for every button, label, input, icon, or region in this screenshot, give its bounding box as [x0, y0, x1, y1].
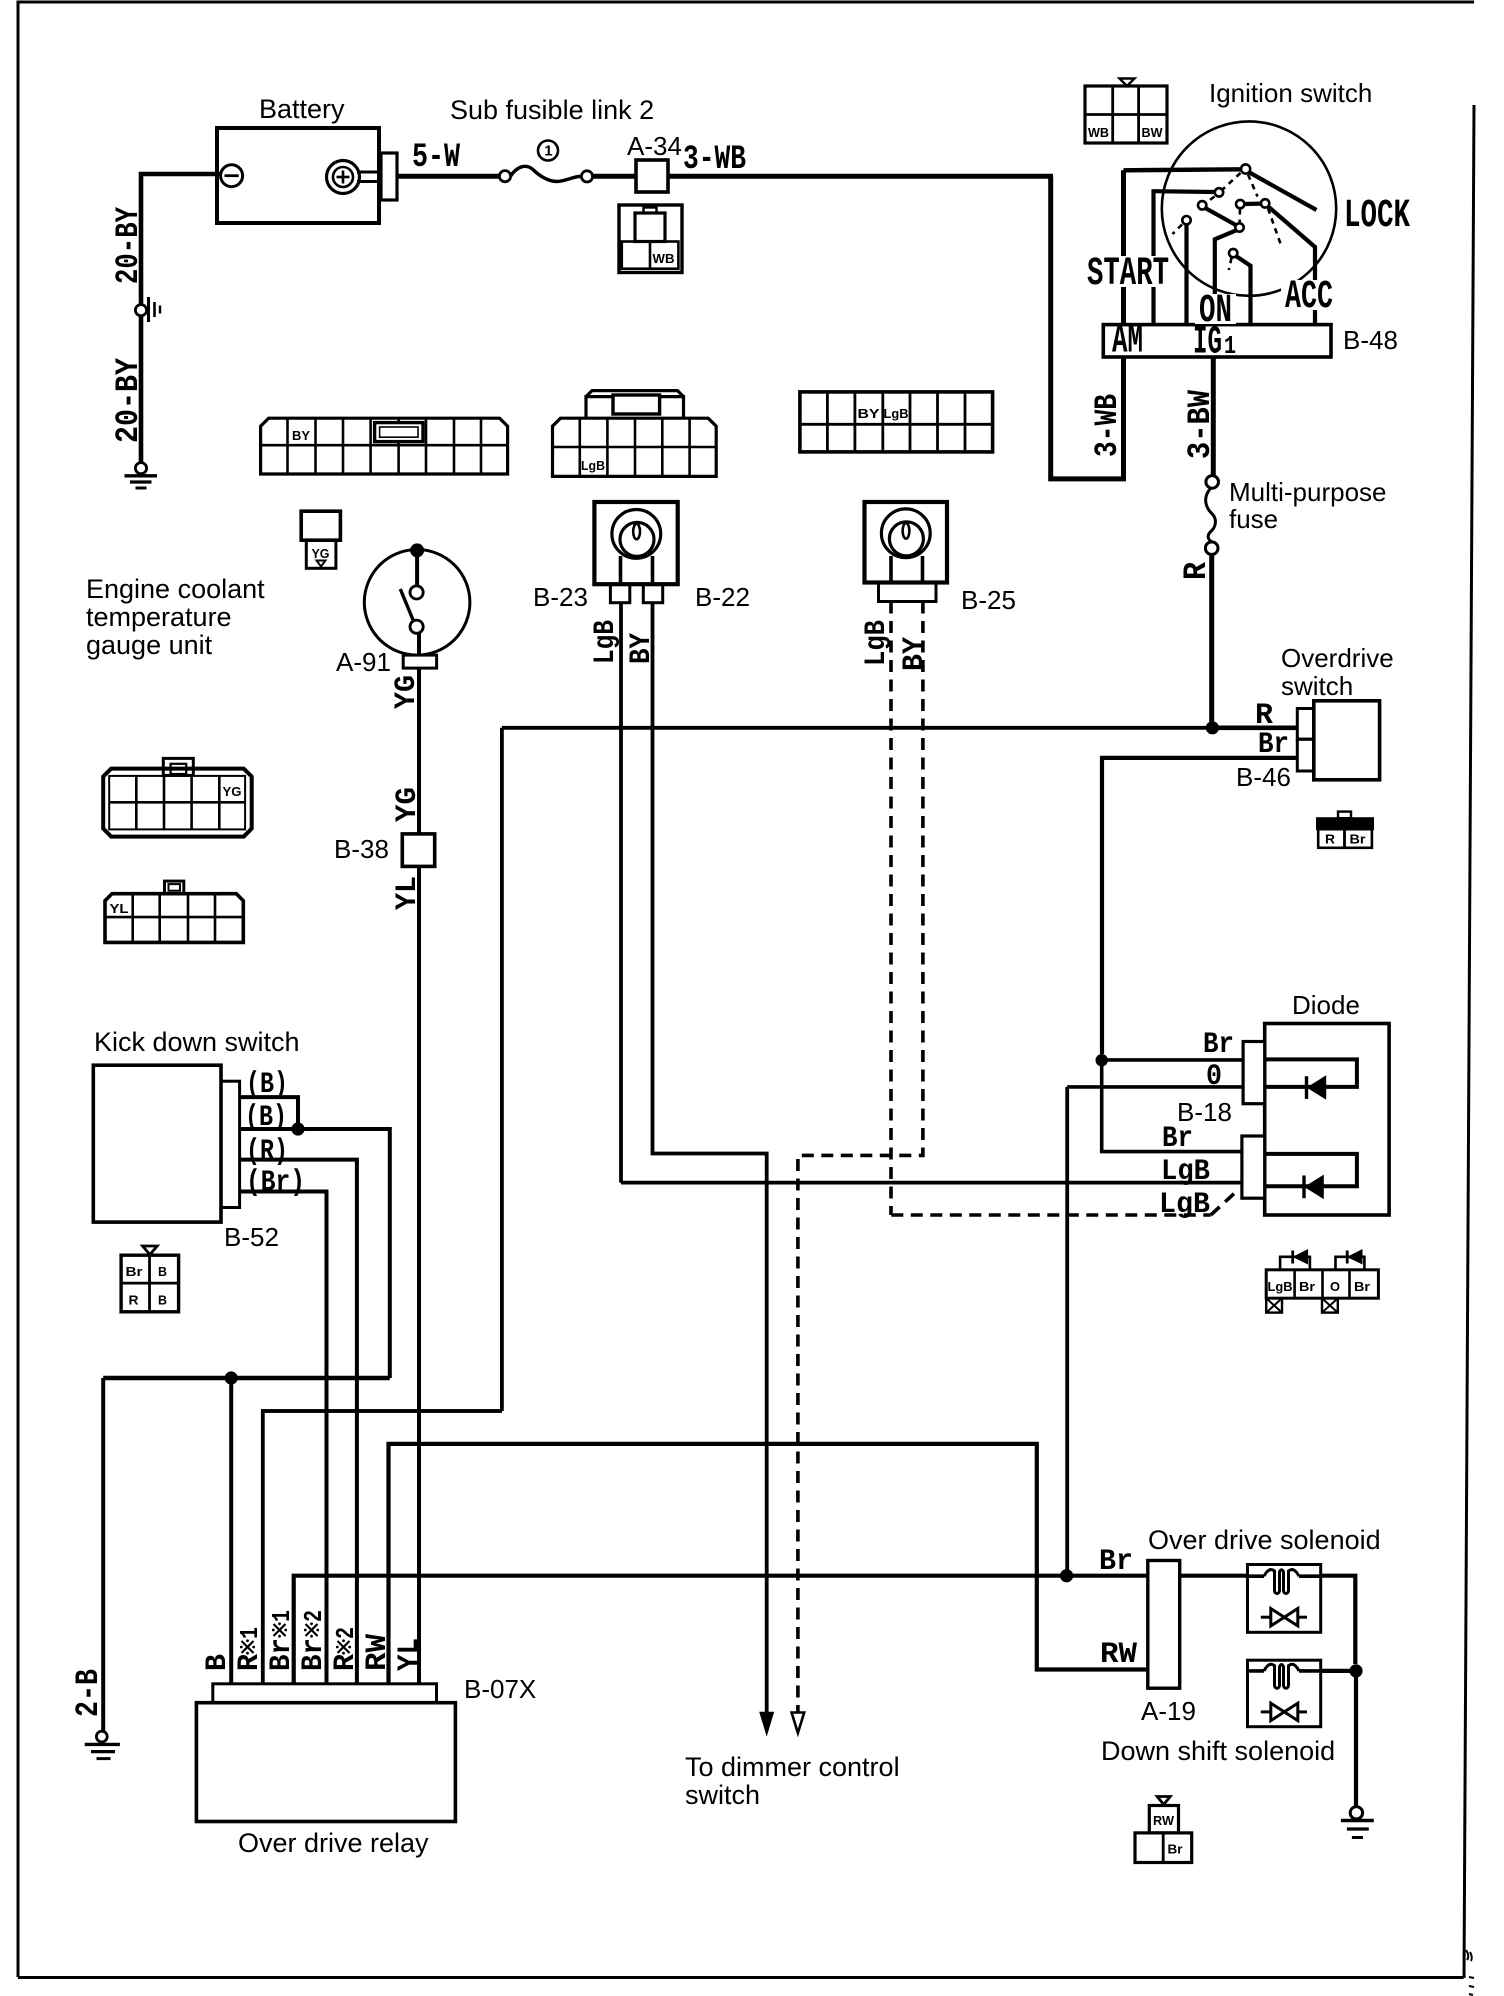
svg-text:3-WB: 3-WB [683, 141, 746, 179]
svg-text:RW: RW [361, 1634, 395, 1671]
svg-text:Ignition switch: Ignition switch [1209, 78, 1372, 108]
svg-text:B-38: B-38 [334, 834, 389, 864]
svg-text:BY: BY [625, 633, 659, 664]
svg-text:Br: Br [1354, 1279, 1370, 1294]
svg-text:3-WB: 3-WB [1089, 394, 1126, 457]
svg-text:AM: AM [1112, 320, 1143, 365]
svg-text:(Br): (Br) [246, 1166, 305, 1200]
svg-text:B: B [158, 1264, 167, 1279]
svg-text:YG: YG [390, 675, 424, 709]
svg-text:Sub fusible link 2: Sub fusible link 2 [450, 95, 654, 125]
svg-text:R: R [233, 1654, 267, 1671]
svg-text:1: 1 [1224, 331, 1236, 361]
svg-text:B-48: B-48 [1343, 325, 1398, 355]
svg-text:To dimmer control: To dimmer control [685, 1752, 900, 1782]
svg-text:LgB: LgB [1161, 1155, 1210, 1189]
svg-text:B-23: B-23 [533, 582, 588, 612]
svg-text:WB: WB [653, 251, 675, 266]
svg-text:20-BY: 20-BY [110, 357, 147, 443]
svg-text:1: 1 [267, 1610, 297, 1622]
svg-text:ON: ON [1199, 289, 1232, 334]
svg-text:Overdrive: Overdrive [1281, 643, 1394, 673]
svg-text:3-BW: 3-BW [1182, 389, 1219, 459]
svg-text:A-19: A-19 [1141, 1696, 1196, 1726]
svg-text:YG: YG [312, 546, 330, 561]
svg-text:B: B [158, 1293, 167, 1308]
svg-text:B-25: B-25 [961, 585, 1016, 615]
svg-text:Br: Br [1350, 832, 1366, 847]
svg-text:LOCK: LOCK [1344, 194, 1410, 239]
svg-text:RW: RW [1100, 1638, 1137, 1672]
svg-text:LgB: LgB [1268, 1279, 1293, 1294]
svg-text:gauge unit: gauge unit [86, 630, 213, 660]
svg-text:YL: YL [393, 1638, 427, 1671]
svg-text:B-46: B-46 [1236, 762, 1291, 792]
svg-text:switch: switch [685, 1780, 760, 1810]
svg-text:fuse: fuse [1229, 504, 1278, 534]
svg-text:5-W: 5-W [412, 139, 460, 177]
svg-text:START: START [1087, 252, 1169, 297]
svg-text:Br: Br [1162, 1122, 1193, 1156]
svg-text:(R): (R) [246, 1135, 288, 1169]
svg-text:1: 1 [235, 1627, 265, 1639]
svg-text:Br: Br [297, 1638, 331, 1671]
svg-text:Br: Br [1203, 1028, 1234, 1062]
svg-text:B: B [201, 1654, 235, 1671]
svg-text:A-34: A-34 [627, 131, 682, 161]
svg-text:2: 2 [299, 1610, 329, 1622]
svg-text:YG: YG [391, 787, 425, 822]
svg-text:LgB: LgB [589, 620, 623, 664]
svg-text:B-22: B-22 [695, 582, 750, 612]
svg-text:BY: BY [858, 406, 880, 421]
svg-text:Br: Br [1099, 1545, 1133, 1579]
svg-text:0: 0 [1206, 1060, 1222, 1094]
svg-text:Diode: Diode [1292, 990, 1360, 1020]
svg-text:Engine coolant: Engine coolant [86, 574, 265, 604]
svg-text:Br: Br [126, 1264, 143, 1279]
svg-text:Br: Br [1299, 1279, 1315, 1294]
svg-text:LgB: LgB [581, 458, 605, 473]
svg-text:O: O [1330, 1279, 1340, 1294]
svg-text:Over drive relay: Over drive relay [238, 1828, 429, 1858]
svg-text:(B): (B) [245, 1101, 287, 1135]
svg-text:YL: YL [391, 876, 425, 910]
svg-text:R: R [1178, 561, 1215, 580]
svg-text:A-91: A-91 [336, 647, 391, 677]
svg-text:switch: switch [1281, 671, 1353, 701]
svg-text:YL: YL [110, 901, 129, 916]
svg-text:Battery: Battery [259, 94, 345, 124]
svg-text:Br: Br [1168, 1842, 1183, 1857]
svg-text:Multi-purpose: Multi-purpose [1229, 477, 1387, 507]
svg-text:ACC: ACC [1285, 275, 1333, 320]
svg-text:R: R [129, 1293, 140, 1308]
svg-text:YG: YG [223, 784, 242, 799]
svg-text:LgB: LgB [884, 406, 909, 421]
svg-text:BY: BY [292, 428, 310, 443]
svg-text:Down shift solenoid: Down shift solenoid [1101, 1736, 1335, 1766]
svg-text:Br: Br [1258, 728, 1289, 762]
svg-text:WB: WB [1088, 125, 1109, 140]
svg-text:BY: BY [898, 637, 932, 671]
svg-text:(B): (B) [246, 1068, 288, 1102]
svg-text:temperature: temperature [86, 602, 232, 632]
svg-text:B-07X: B-07X [464, 1674, 536, 1704]
svg-text:Br: Br [265, 1638, 299, 1671]
svg-text:2-B: 2-B [70, 1669, 107, 1717]
svg-text:RW: RW [1153, 1813, 1175, 1828]
svg-text:LgB: LgB [860, 620, 894, 666]
svg-text:BW: BW [1142, 125, 1164, 140]
svg-text:R: R [1325, 832, 1336, 847]
svg-text:2: 2 [331, 1627, 361, 1639]
svg-text:B-52: B-52 [224, 1222, 279, 1252]
svg-text:Over drive solenoid: Over drive solenoid [1148, 1525, 1381, 1555]
svg-text:20-BY: 20-BY [110, 206, 147, 284]
svg-text:R: R [329, 1654, 363, 1671]
svg-text:1: 1 [544, 143, 552, 160]
svg-text:LgB: LgB [1159, 1188, 1210, 1222]
svg-text:Kick down switch: Kick down switch [94, 1027, 300, 1057]
